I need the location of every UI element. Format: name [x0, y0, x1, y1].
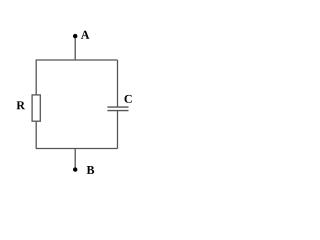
resistor R: [32, 95, 40, 121]
wire node A stub: [74, 36, 76, 60]
node B label: [87, 166, 94, 174]
wire bottom rail: [36, 148, 118, 150]
capacitor C bottom plate: [107, 110, 128, 112]
capacitor C top plate: [107, 106, 128, 108]
node B junction dot: [73, 167, 77, 171]
wire right branch lower: [117, 111, 119, 149]
wire top rail: [36, 59, 118, 61]
resistor R value label: [17, 101, 26, 109]
node A junction dot: [73, 34, 77, 38]
wire left branch upper: [35, 60, 37, 95]
wire node B stub: [74, 149, 76, 170]
wire right branch upper: [117, 60, 119, 107]
capacitor C value label: [124, 95, 131, 103]
node A label: [81, 31, 89, 39]
wire left branch lower: [35, 121, 37, 148]
